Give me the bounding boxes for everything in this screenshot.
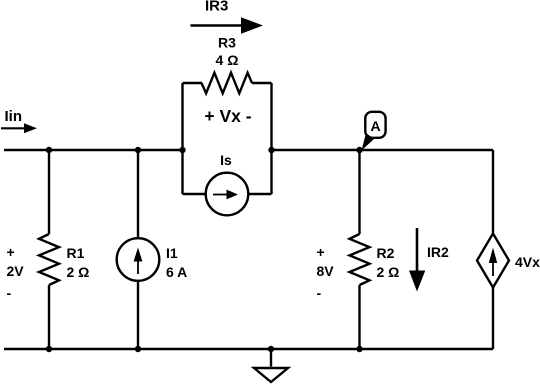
resistor R1 zigzag	[39, 234, 59, 285]
junction dot: R2 / bottom rail	[356, 346, 362, 352]
svg-text:4Vx: 4Vx	[515, 254, 540, 270]
svg-text:Iin: Iin	[5, 108, 23, 125]
wire: R3 left lead	[183, 82, 203, 84]
svg-text:I1: I1	[166, 245, 178, 261]
svg-text:Is: Is	[220, 152, 232, 168]
junction dot: R1 / top rail	[46, 147, 52, 153]
arrow: IR3 current	[191, 24, 243, 27]
wire: top node rail, left segment (input terminal to loop left side)	[4, 149, 183, 151]
svg-text:IR3: IR3	[205, 0, 228, 15]
wire: I1 bottom lead	[137, 282, 139, 350]
svg-text:A: A	[370, 118, 380, 134]
junction dot: I1 / top rail	[135, 147, 141, 153]
resistor R3 zigzag	[202, 73, 253, 94]
wire: I1 top lead	[137, 150, 139, 238]
wire: right branch upper (node A rail down to dependent source)	[492, 150, 494, 234]
wire: right branch lower (dependent source to bottom rail)	[492, 288, 494, 350]
wire: R1 top lead	[48, 150, 50, 234]
svg-text:6 A: 6 A	[166, 264, 187, 280]
arrow: Is source internal arrow	[213, 194, 228, 196]
arrow: I1 source internal arrow	[137, 259, 139, 274]
svg-text:+ Vx -: + Vx -	[204, 106, 251, 126]
arrow: Iin input current	[1, 127, 25, 129]
wire: Is left lead	[183, 193, 206, 195]
wire: parallel loop left side	[181, 83, 183, 194]
wire: top node rail, right segment (loop right side to dependent source branch)	[272, 149, 494, 151]
junction dot: I1 / bottom rail	[135, 346, 141, 352]
junction dot: R1 / bottom rail	[46, 346, 52, 352]
svg-text:2 Ω: 2 Ω	[377, 264, 400, 280]
current source I1 circle	[117, 238, 160, 281]
svg-text:R3: R3	[218, 35, 236, 51]
current source Is circle	[206, 173, 249, 216]
wire: R2 bottom lead	[358, 285, 360, 349]
wire: Is right lead	[249, 193, 272, 195]
svg-text:+: +	[7, 244, 15, 260]
arrow: dependent source internal arrow	[492, 261, 494, 276]
wire: R3 right lead	[252, 82, 272, 84]
svg-text:4 Ω: 4 Ω	[216, 52, 239, 68]
svg-text:R1: R1	[67, 245, 85, 261]
node A callout box	[365, 112, 385, 138]
svg-text:-: -	[7, 285, 12, 301]
wire: parallel loop right side	[270, 83, 272, 194]
svg-text:8V: 8V	[317, 263, 335, 279]
ground symbol triangle	[254, 368, 288, 382]
wire: bottom ground rail	[4, 348, 493, 350]
junction dot: ground / bottom rail	[268, 346, 274, 352]
junction dot: node A / R2 branch	[356, 147, 362, 153]
wire: R2 top lead	[358, 150, 360, 234]
wire: R1 bottom lead	[48, 285, 50, 349]
svg-text:-: -	[317, 285, 322, 301]
junction dot: loop right / top rail	[268, 147, 274, 153]
node A callout pointer	[362, 133, 375, 151]
resistor R2 zigzag	[350, 234, 370, 285]
arrow: IR2 current	[416, 228, 419, 272]
junction dot: loop left / top rail	[179, 147, 185, 153]
wire: ground stub	[270, 349, 272, 367]
svg-text:2 Ω: 2 Ω	[67, 264, 90, 280]
dependent source diamond (4Vx)	[477, 234, 509, 288]
svg-text:IR2: IR2	[427, 244, 449, 260]
svg-text:R2: R2	[377, 245, 395, 261]
svg-text:2V: 2V	[7, 263, 25, 279]
svg-text:+: +	[317, 244, 325, 260]
